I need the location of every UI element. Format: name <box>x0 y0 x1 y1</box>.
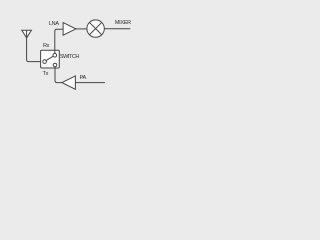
label Tx <box>43 72 49 78</box>
switch throw contact Tx <box>53 63 57 67</box>
wire Tx: switch to PA <box>55 67 62 83</box>
label PA <box>80 76 86 82</box>
wire LNA to mixer <box>76 28 87 30</box>
wire Rx: switch to LNA <box>55 29 63 53</box>
label Rx <box>43 44 49 50</box>
label LNA <box>49 22 59 28</box>
label SWITCH <box>60 55 79 61</box>
antenna <box>22 30 43 61</box>
amplifier LNA <box>63 23 76 36</box>
label MIXER <box>115 21 131 27</box>
wire mixer output <box>104 28 130 30</box>
mixer <box>87 20 104 37</box>
switch arm <box>46 56 53 60</box>
wire PA output <box>75 82 105 84</box>
switch box <box>41 50 60 68</box>
background <box>0 0 146 104</box>
switch pole contact (antenna) <box>43 60 47 64</box>
amplifier PA <box>62 76 76 89</box>
switch throw contact Rx <box>53 53 57 57</box>
